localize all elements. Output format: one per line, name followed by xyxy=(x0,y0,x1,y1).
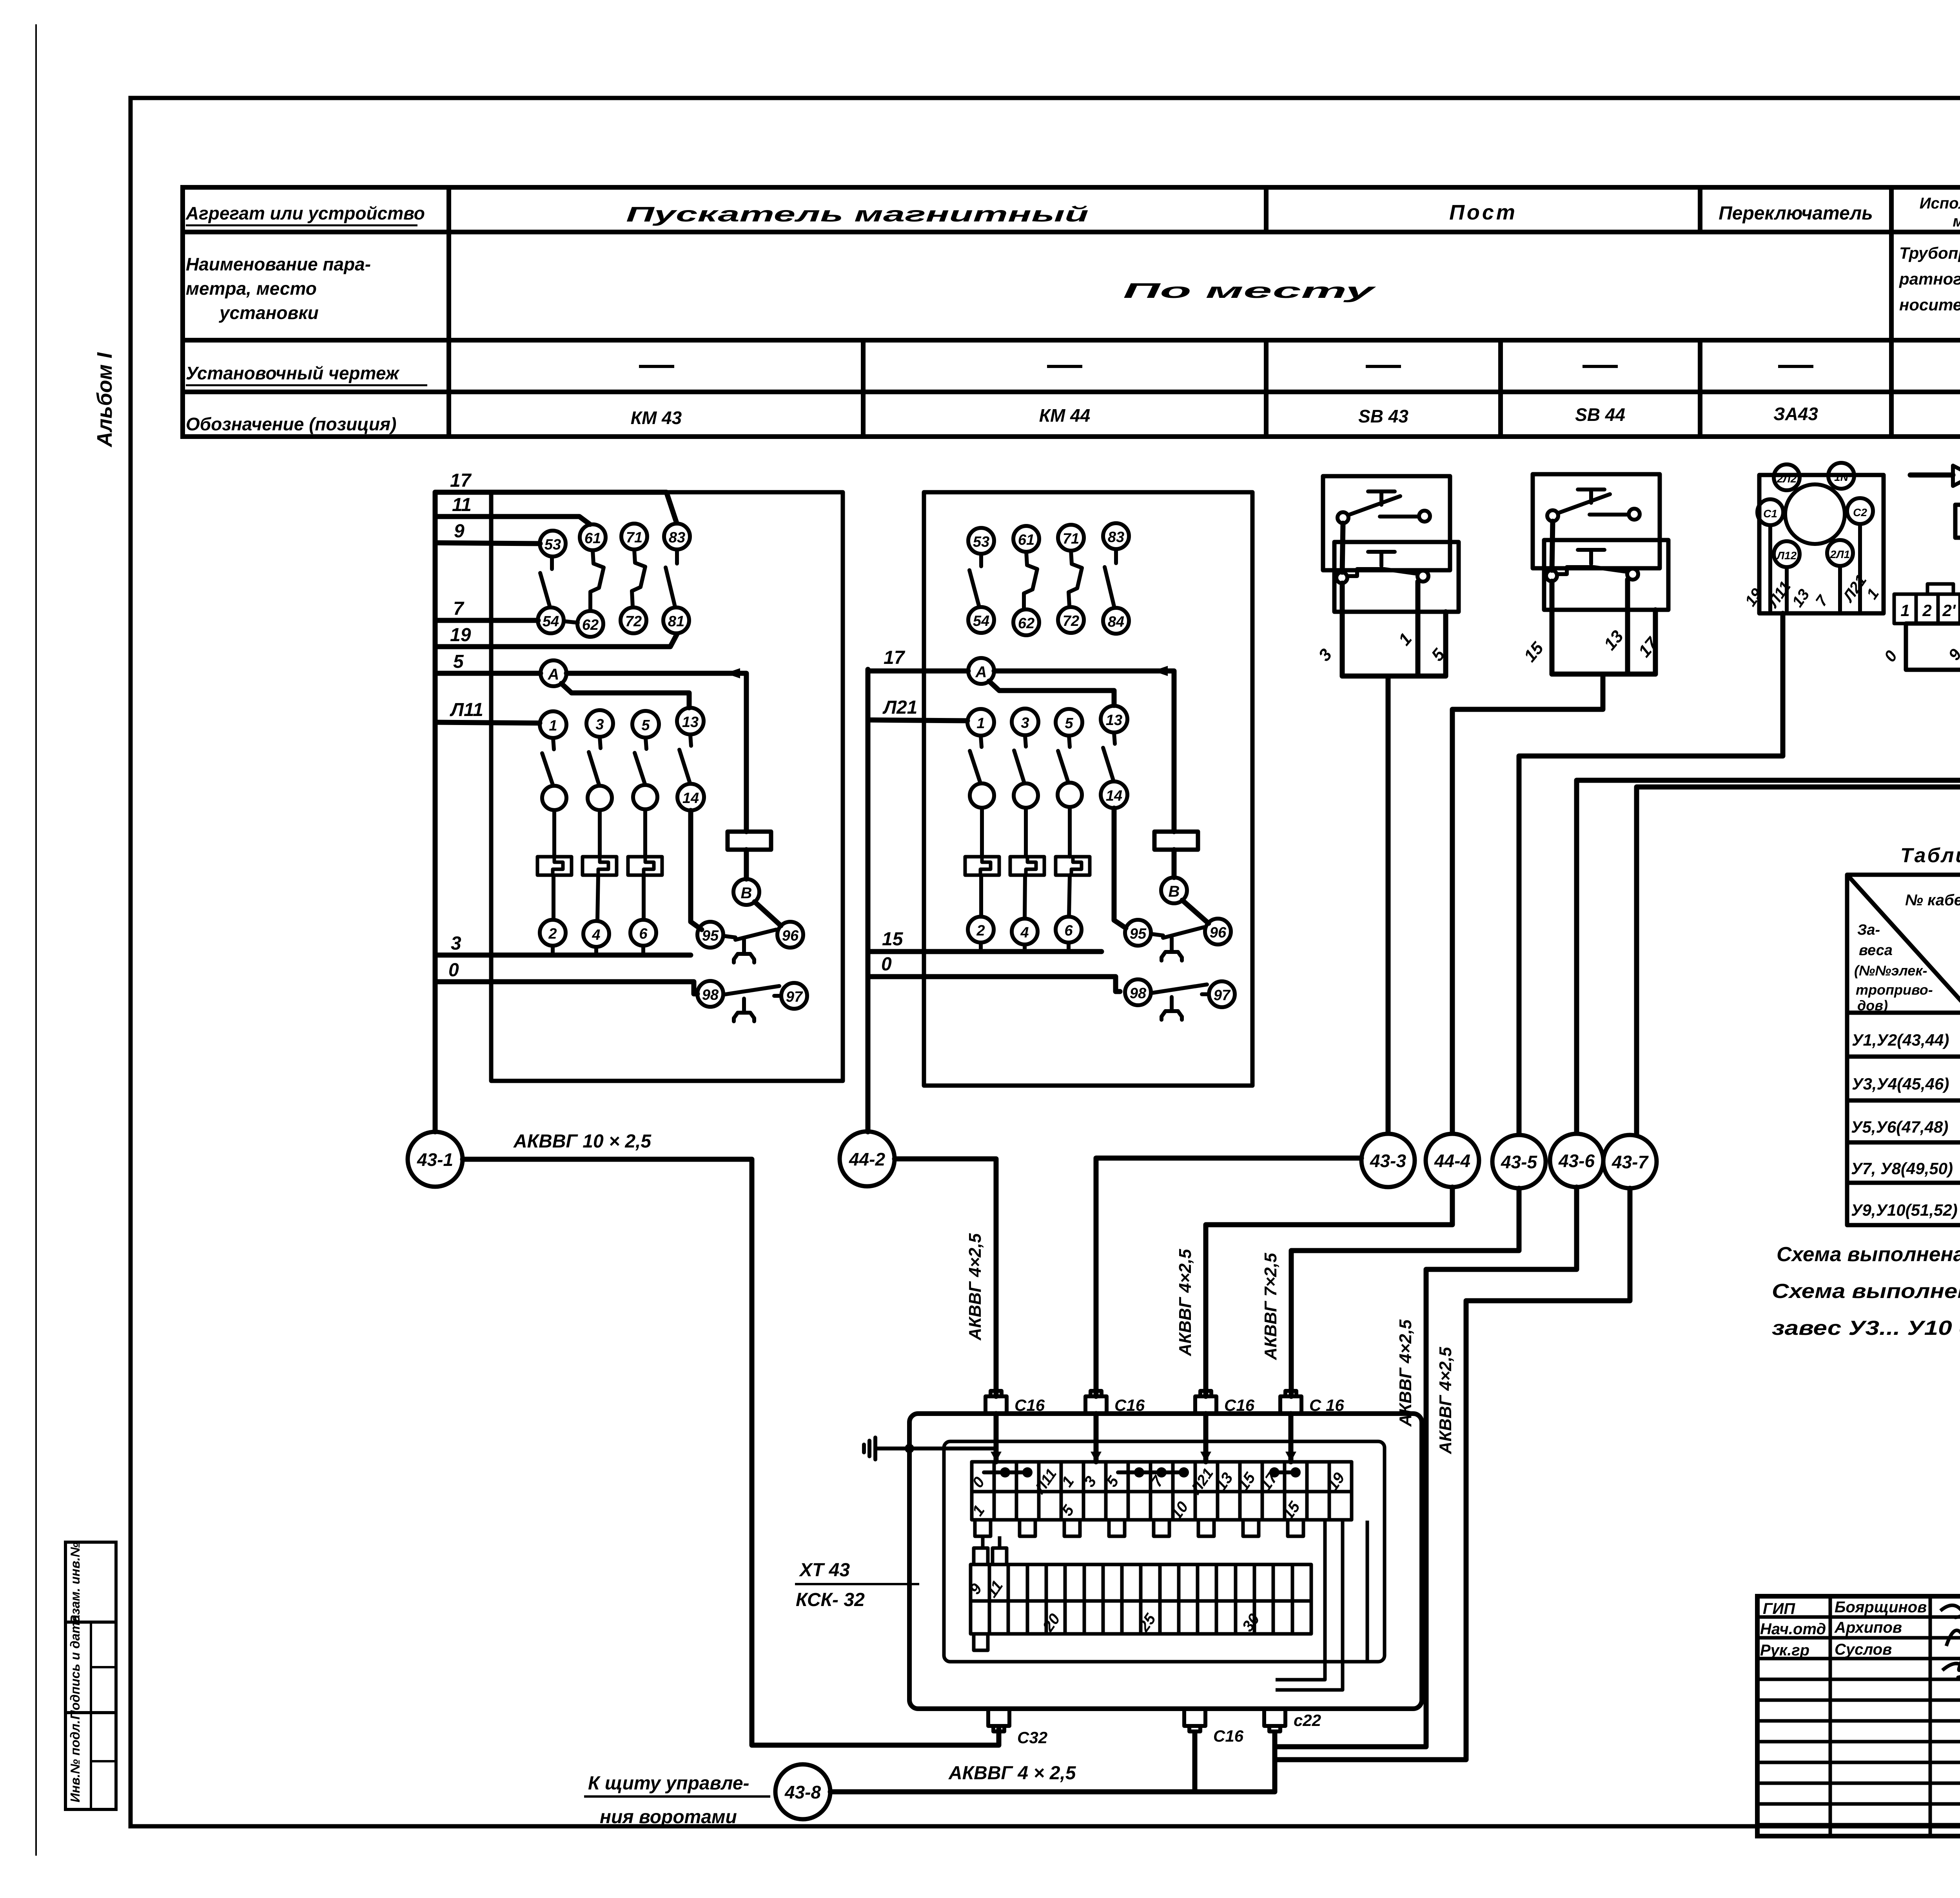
svg-text:98: 98 xyxy=(1130,985,1147,1002)
wire SB43 to cable 43-3 xyxy=(1386,676,1391,1133)
pole2 wire to thermal element xyxy=(1024,808,1028,857)
terminal 4 xyxy=(583,921,609,947)
ZA43 terminal C1 xyxy=(1757,499,1783,525)
node B terminal xyxy=(733,879,759,905)
junction triangle gland4 xyxy=(1285,1452,1296,1462)
svg-text:44-4: 44-4 xyxy=(1434,1151,1470,1171)
svg-text:7: 7 xyxy=(453,598,465,619)
cable 43-1 bus riser xyxy=(433,492,438,1132)
main contact terminal 1 xyxy=(967,709,994,736)
svg-text:С32: С32 xyxy=(1017,1728,1047,1747)
aux contact terminal 81 xyxy=(663,607,689,633)
svg-text:Переключатель: Переключатель xyxy=(1719,203,1873,224)
main blade pole2 xyxy=(1014,736,1026,783)
wire ZA43 jog to cable 43-5 riser xyxy=(1519,613,1783,1134)
A43 stub box 0-9 xyxy=(1906,624,1960,670)
thermal element pole2 xyxy=(1010,857,1044,875)
node A terminal xyxy=(541,660,566,686)
svg-text:У9,У10(51,52): У9,У10(51,52) xyxy=(1851,1201,1958,1219)
terminal 4 xyxy=(1012,919,1038,944)
svg-text:Архипов: Архипов xyxy=(1834,1619,1902,1636)
main contact terminal 5 xyxy=(1056,709,1082,736)
terminal 2 stub to rail 15 xyxy=(979,943,983,952)
thermal element pole3 xyxy=(1056,857,1090,875)
pole3 heater circle xyxy=(1058,783,1082,807)
svg-text:метра, место: метра, место xyxy=(186,278,317,299)
pole2 wire to terminal 4 xyxy=(1025,875,1025,918)
valve body symbol xyxy=(1953,465,1960,486)
svg-text:С2: С2 xyxy=(1853,506,1867,518)
svg-text:Л12: Л12 xyxy=(1776,549,1797,562)
svg-text:с22: с22 xyxy=(1294,1711,1321,1729)
wire cable 43-3 run to C16 gland xyxy=(1096,1158,1361,1396)
gland C16 no.2 xyxy=(1085,1391,1107,1414)
signature squiggle 2 xyxy=(1946,1630,1960,1670)
wire 7 rail xyxy=(435,618,538,623)
dash za43 xyxy=(1778,365,1813,368)
svg-text:У5,У6(47,48): У5,У6(47,48) xyxy=(1851,1118,1948,1136)
left stamp boxes xyxy=(65,1542,116,1809)
svg-text:С16: С16 xyxy=(1014,1396,1045,1414)
thermal element pole2 xyxy=(583,857,617,875)
svg-text:Обозначение (позиция): Обозначение (позиция) xyxy=(186,414,396,434)
svg-text:Взам. инв.№: Взам. инв.№ xyxy=(68,1542,82,1624)
coil KM44 xyxy=(1154,832,1198,850)
svg-text:15: 15 xyxy=(882,929,904,950)
wire A to coil riser xyxy=(994,671,1174,832)
SB44 stop button contact xyxy=(1546,550,1638,581)
wire coil to node B xyxy=(744,850,749,879)
svg-text:14: 14 xyxy=(1106,788,1122,804)
svg-text:установки: установки xyxy=(219,303,319,323)
svg-text:Схема выполнена для воздушно-т: Схема выполнена для воздушно-тепловых за… xyxy=(1772,1280,1960,1303)
main contact terminal 3 xyxy=(586,710,613,737)
main contact terminal 13 xyxy=(1101,706,1127,732)
pole3 heater circle xyxy=(633,785,657,809)
svg-text:В: В xyxy=(741,885,752,902)
thermal element pole1 xyxy=(965,857,999,875)
manual reset symbol 95-96 xyxy=(734,940,754,963)
terminal 4 stub to rail 15 xyxy=(1023,944,1027,952)
wire gland3 to strip xyxy=(1203,1414,1209,1462)
manual reset symbol 95-96 xyxy=(1161,938,1182,961)
wire A branch to contact 13 xyxy=(561,683,689,708)
SB44 terminal wire 17 xyxy=(1653,610,1658,674)
svg-text:17: 17 xyxy=(450,470,472,491)
svg-text:2: 2 xyxy=(1922,601,1931,620)
svg-text:5: 5 xyxy=(641,717,650,734)
thermal relay terminal 95 xyxy=(1125,920,1151,946)
pole2 wire to terminal 4 xyxy=(597,875,598,921)
starter KM43 enclosure box xyxy=(491,492,843,1081)
wire B to contact 96 xyxy=(755,902,781,926)
svg-text:6: 6 xyxy=(1064,923,1073,939)
terminal 2 xyxy=(968,917,994,943)
wire A43 stub jog to cable 43-6 riser xyxy=(1577,670,1960,1133)
svg-text:2Л2: 2Л2 xyxy=(1777,473,1797,485)
upper terminal strip xyxy=(972,1462,1352,1520)
main blade pole3 xyxy=(1058,736,1070,782)
equipment table grid xyxy=(183,187,1960,437)
wire cable 44-4 run to C16 gland xyxy=(1206,1187,1452,1396)
svg-text:К щиту управле-: К щиту управле- xyxy=(588,1773,750,1794)
thermal relay terminal 97 xyxy=(1209,981,1235,1007)
SB44 right terminal wire 13 xyxy=(1625,580,1630,674)
svg-text:завес У3... У10 она аналогич: завес У3... У10 она аналогична. xyxy=(1772,1317,1960,1340)
svg-text:2: 2 xyxy=(548,926,557,942)
cable marker 44-4 xyxy=(1426,1134,1479,1187)
svg-text:С1: С1 xyxy=(1763,508,1777,520)
svg-text:62: 62 xyxy=(582,617,599,633)
upper strip mounting tabs xyxy=(975,1520,1303,1536)
gland C16 no.4 xyxy=(1280,1391,1301,1414)
manual reset symbol 98-97 xyxy=(734,999,754,1021)
SB43 bottom bus xyxy=(1342,674,1446,679)
push-button post SB44 lower box xyxy=(1544,540,1668,610)
wire TSA jog to cable 43-7 riser xyxy=(1637,551,1960,1135)
main blade pole1 xyxy=(970,736,982,783)
pole1 wire to thermal element xyxy=(980,808,984,857)
pole1 wire to terminal 2 xyxy=(979,875,983,916)
contact blade 98-97 xyxy=(723,986,781,996)
dash km43 xyxy=(639,365,674,368)
terminal box XT43 inner outline xyxy=(944,1441,1385,1662)
svg-text:АКВВГ 4×2,5: АКВВГ 4×2,5 xyxy=(965,1233,985,1341)
pole3 wire to thermal element xyxy=(643,809,647,857)
svg-text:SВ 44: SВ 44 xyxy=(1575,404,1625,425)
wire 14 column to contact 95 xyxy=(1114,808,1126,928)
aux contact terminal 71 xyxy=(621,524,647,549)
upper strip jumper dots group1 xyxy=(984,1470,1029,1474)
label line xyxy=(795,1583,919,1585)
svg-text:84: 84 xyxy=(1108,614,1124,630)
upper strip jumper dots group2 xyxy=(1118,1470,1185,1474)
wire A branch to contact 13 xyxy=(989,681,1114,705)
svg-text:Рук.гр: Рук.гр xyxy=(1760,1642,1809,1659)
cable marker 44-2 xyxy=(840,1131,895,1186)
ZA43 terminal 2L2 xyxy=(1774,464,1800,490)
main contact terminal 1 xyxy=(540,711,566,738)
gland C32 bottom xyxy=(988,1709,1009,1731)
aux contact terminal 62 xyxy=(1013,609,1039,635)
title block main outline xyxy=(1757,1596,1960,1836)
svg-text:КСК- 32: КСК- 32 xyxy=(796,1590,865,1610)
ZA43 terminal 2L1 xyxy=(1827,540,1853,566)
lower strip caps xyxy=(974,1548,1007,1650)
svg-text:Установочный чертеж: Установочный чертеж xyxy=(186,363,400,383)
svg-text:ГИП: ГИП xyxy=(1763,1600,1795,1617)
wire gland2 to strip xyxy=(1094,1414,1099,1462)
aux contact terminal 61 xyxy=(580,524,606,550)
wire B to contact 96 xyxy=(1182,900,1209,923)
svg-text:3: 3 xyxy=(451,933,461,954)
wire cable 43-1 run to C32 gland xyxy=(463,1159,999,1745)
svg-text:43-7: 43-7 xyxy=(1612,1152,1649,1172)
SB44 left terminal wire 15 xyxy=(1550,581,1555,674)
upper strip jumper dots group3 xyxy=(1274,1470,1297,1474)
gland C16 bottom xyxy=(1184,1709,1205,1731)
svg-text:ХТ 43: ХТ 43 xyxy=(799,1560,850,1581)
svg-text:43-8: 43-8 xyxy=(784,1782,821,1802)
svg-text:КМ 44: КМ 44 xyxy=(1039,405,1091,426)
svg-text:6: 6 xyxy=(639,926,648,942)
svg-text:Суслов: Суслов xyxy=(1835,1641,1892,1658)
svg-text:В: В xyxy=(1169,883,1180,900)
svg-text:44-2: 44-2 xyxy=(849,1149,885,1169)
aux contact terminal 83 xyxy=(1103,523,1129,549)
contact blade 95-96 xyxy=(723,930,776,940)
wire 5 rail through node A xyxy=(435,671,541,676)
svg-text:Пускатель магнитный: Пускатель магнитный xyxy=(626,203,1089,226)
aux blade 71-72 NC xyxy=(632,549,645,607)
cable 44-2 bus riser xyxy=(866,669,871,1132)
aux contact terminal 72 xyxy=(621,607,646,633)
coil KM43 xyxy=(728,832,771,850)
svg-text:3: 3 xyxy=(1021,715,1029,731)
aux contact terminal 53 xyxy=(968,528,994,554)
svg-text:С16: С16 xyxy=(1224,1396,1255,1414)
wire 19 rail xyxy=(435,634,677,647)
junction arrow on A rail xyxy=(725,668,740,678)
aux contact terminal 54 xyxy=(538,607,564,633)
main blade pole1 xyxy=(542,738,554,785)
pole3 wire to terminal 6 xyxy=(642,875,646,919)
svg-text:Схема выполнена на основании с: Схема выполнена на основании схем, лист … xyxy=(1777,1243,1960,1266)
svg-text:механизм: механизм xyxy=(1953,213,1960,230)
gland C16 no.1 xyxy=(985,1391,1007,1414)
wire 9 rail xyxy=(435,543,540,544)
svg-text:У7, У8(49,50): У7, У8(49,50) xyxy=(1851,1159,1953,1178)
svg-text:54: 54 xyxy=(543,613,559,630)
svg-text:За-: За- xyxy=(1857,922,1880,938)
terminal 14 xyxy=(677,784,704,810)
thermal relay terminal 96 xyxy=(777,922,803,948)
dash km44 xyxy=(1047,365,1082,368)
pole1 heater circle xyxy=(970,783,994,808)
ZA43 wire from 2L1 xyxy=(1838,566,1842,611)
svg-text:95: 95 xyxy=(1130,926,1147,942)
push-button post SB43 upper box xyxy=(1323,476,1450,570)
svg-text:2: 2 xyxy=(976,923,985,939)
aux contact terminal 54 xyxy=(968,607,994,633)
svg-text:SВ 43: SВ 43 xyxy=(1358,406,1408,426)
ZA43 wire from L12 xyxy=(1785,567,1789,611)
svg-text:С 16: С 16 xyxy=(1309,1396,1344,1414)
main contact terminal 3 xyxy=(1012,709,1038,735)
inner outline notch wire 1 xyxy=(1276,1521,1325,1680)
starter KM44 enclosure box xyxy=(924,492,1252,1086)
wire cable 43-8 run to C22 gland xyxy=(830,1732,1275,1792)
terminal 6 stub to rail 15 xyxy=(1067,943,1071,952)
signature squiggle 3 xyxy=(1942,1664,1960,1677)
main blade pole4 xyxy=(1103,733,1115,781)
svg-text:43-5: 43-5 xyxy=(1501,1152,1537,1172)
svg-text:Исполнительный: Исполнительный xyxy=(1920,195,1960,212)
SB43 internal wire left xyxy=(1342,523,1343,572)
aux contact terminal 84 xyxy=(1103,608,1129,634)
svg-text:53: 53 xyxy=(973,534,989,550)
svg-text:96: 96 xyxy=(1210,925,1227,941)
ground wire into box xyxy=(875,1447,996,1450)
svg-text:1: 1 xyxy=(549,718,557,734)
junction triangle gland2 xyxy=(1091,1452,1102,1462)
svg-text:0: 0 xyxy=(448,960,459,981)
svg-text:71: 71 xyxy=(626,529,642,546)
svg-text:62: 62 xyxy=(1018,615,1034,632)
title block left grid xyxy=(1757,1596,1960,1836)
svg-text:97: 97 xyxy=(786,989,803,1005)
terminal 2 stub to rail 3 xyxy=(551,946,555,955)
terminal 2 xyxy=(540,920,566,946)
svg-text:Боярщинов: Боярщинов xyxy=(1835,1599,1927,1616)
SB43 terminal wire 5 xyxy=(1443,612,1448,676)
aux contact terminal 62 xyxy=(577,611,603,637)
svg-text:95: 95 xyxy=(702,928,719,944)
terminal 4 stub to rail 3 xyxy=(594,947,598,955)
svg-text:С16: С16 xyxy=(1213,1727,1244,1745)
svg-text:Пост: Пост xyxy=(1449,201,1517,224)
sheet outer left edge line xyxy=(35,24,37,1856)
wire gland4 to strip xyxy=(1289,1414,1294,1462)
cable marker 43-8 xyxy=(775,1764,830,1819)
thermal element pole1 xyxy=(537,857,572,875)
svg-text:11: 11 xyxy=(452,495,472,515)
wire A to coil riser xyxy=(566,673,746,832)
ZA43 terminal 1N xyxy=(1828,463,1854,489)
svg-text:№ кабеля: № кабеля xyxy=(1905,892,1960,909)
svg-text:83: 83 xyxy=(1108,529,1124,546)
svg-text:2': 2' xyxy=(1942,601,1956,620)
gland C16 no.3 xyxy=(1195,1391,1216,1414)
wire cable 43-5 run to C16 gland xyxy=(1291,1188,1519,1396)
svg-text:54: 54 xyxy=(973,613,989,629)
svg-text:13: 13 xyxy=(1106,712,1122,729)
aux blade 61-62 NC xyxy=(1024,552,1037,608)
wire 11 rail xyxy=(435,517,590,524)
aux contact terminal 72 xyxy=(1058,607,1084,633)
svg-text:А: А xyxy=(975,663,987,681)
svg-text:4: 4 xyxy=(592,927,600,943)
svg-text:ратного тепло-: ратного тепло- xyxy=(1899,270,1960,288)
wire cable 43-6 wrap to C22 area xyxy=(1276,1187,1577,1747)
wire 0 rail xyxy=(435,982,697,994)
inner outline notch wire 2 xyxy=(1276,1521,1343,1690)
aux contact terminal 71 xyxy=(1058,525,1084,551)
SB44 start button contact xyxy=(1547,489,1640,521)
contact blade 98-97 xyxy=(1151,984,1209,994)
svg-text:Альбом I: Альбом I xyxy=(93,352,116,448)
thermal relay terminal 98 xyxy=(697,981,723,1007)
svg-text:83: 83 xyxy=(669,529,685,546)
SB44 bottom bus xyxy=(1552,672,1655,677)
inner outline notch wire 3 xyxy=(1366,1521,1369,1662)
pole2 heater circle xyxy=(1014,783,1038,808)
svg-text:Агрегат или устройство: Агрегат или устройство xyxy=(185,203,425,223)
SB44 internal wire left xyxy=(1552,521,1553,570)
terminal 6 xyxy=(1056,917,1082,943)
svg-text:96: 96 xyxy=(782,928,799,944)
svg-text:72: 72 xyxy=(1063,613,1079,629)
aux blade 61-62 NC xyxy=(590,550,604,610)
selector switch ZA43 box xyxy=(1759,475,1884,613)
cable length table grid xyxy=(1847,875,1960,1225)
cable marker 43-6 xyxy=(1550,1134,1603,1187)
aux contact terminal 83 xyxy=(664,524,690,549)
ZA43 terminal L12 xyxy=(1774,541,1800,567)
svg-text:4: 4 xyxy=(1020,925,1029,941)
svg-text:(№№элек-: (№№элек- xyxy=(1854,963,1927,979)
terminal 6 stub to rail 3 xyxy=(641,946,645,955)
ZA43 wire from C2 xyxy=(1858,524,1862,611)
svg-text:81: 81 xyxy=(668,613,684,630)
junction triangle gland1 xyxy=(991,1452,1002,1462)
svg-text:По месту: По месту xyxy=(1123,279,1377,303)
svg-text:43-1: 43-1 xyxy=(417,1149,453,1170)
contact blade 95-96 xyxy=(1151,927,1204,938)
svg-text:А: А xyxy=(548,666,559,683)
svg-text:АКВВГ 7×2,5: АКВВГ 7×2,5 xyxy=(1261,1253,1280,1360)
wire 17 rail xyxy=(435,492,677,523)
svg-text:ния воротами: ния воротами xyxy=(600,1807,737,1827)
SB43 start button contact xyxy=(1338,491,1430,523)
terminal 14 xyxy=(1101,781,1127,808)
svg-text:Л11: Л11 xyxy=(450,700,483,720)
SB43 stop button contact xyxy=(1336,552,1428,583)
main blade pole4 xyxy=(679,735,691,783)
svg-text:С16: С16 xyxy=(1114,1396,1145,1414)
actuator A43 pipe left xyxy=(1910,473,1953,478)
svg-text:КМ 43: КМ 43 xyxy=(631,408,682,428)
svg-text:14: 14 xyxy=(682,790,699,807)
wire 17 rail through node A xyxy=(868,669,968,674)
node B terminal xyxy=(1161,877,1187,903)
aux contact terminal 53 xyxy=(540,531,566,557)
strip cap over 2' xyxy=(1927,584,1953,594)
wire coil to node B xyxy=(1172,850,1177,877)
A43 terminal strip xyxy=(1894,594,1960,624)
thermal relay terminal 95 xyxy=(697,922,723,948)
aux blade 83-84 xyxy=(1105,549,1116,606)
svg-text:19: 19 xyxy=(450,625,471,645)
svg-text:У1,У2(43,44): У1,У2(43,44) xyxy=(1852,1031,1949,1049)
wire 0 rail xyxy=(868,977,1120,992)
wire cable 44-2 run to C16 gland xyxy=(895,1159,996,1396)
aux blade 83-81 xyxy=(666,549,677,607)
svg-text:2Л1: 2Л1 xyxy=(1830,548,1850,560)
junction arrow on A rail xyxy=(1153,666,1168,676)
svg-text:43-6: 43-6 xyxy=(1558,1151,1595,1171)
wire gland1 to strip xyxy=(994,1414,999,1462)
wire SB44 jog to cable 44-4 riser xyxy=(1452,674,1603,1133)
svg-text:АКВВГ 4×2,5: АКВВГ 4×2,5 xyxy=(1436,1347,1455,1454)
junction triangle gland3 xyxy=(1200,1452,1211,1462)
svg-text:13: 13 xyxy=(682,714,699,731)
ground symbol xyxy=(864,1438,875,1459)
terminal box XT43 outer enclosure xyxy=(909,1414,1422,1709)
wire cable 43-7 wrap to C22 area xyxy=(1276,1188,1630,1760)
pole3 wire to terminal 6 xyxy=(1069,875,1070,916)
cable marker 43-1 xyxy=(408,1132,463,1187)
aux blade 53-54 xyxy=(969,554,981,605)
svg-text:веса: веса xyxy=(1859,942,1893,959)
svg-text:Таблица длин кабелей( м): Таблица длин кабелей( м) xyxy=(1900,844,1960,867)
ZA43 terminal C2 xyxy=(1847,498,1873,524)
thermal relay terminal 96 xyxy=(1205,919,1231,944)
svg-text:носителя: носителя xyxy=(1899,295,1960,314)
svg-text:3: 3 xyxy=(595,716,604,733)
ZA43 rotor circle xyxy=(1785,484,1845,544)
svg-text:АКВВГ 4×2,5: АКВВГ 4×2,5 xyxy=(1396,1320,1415,1427)
